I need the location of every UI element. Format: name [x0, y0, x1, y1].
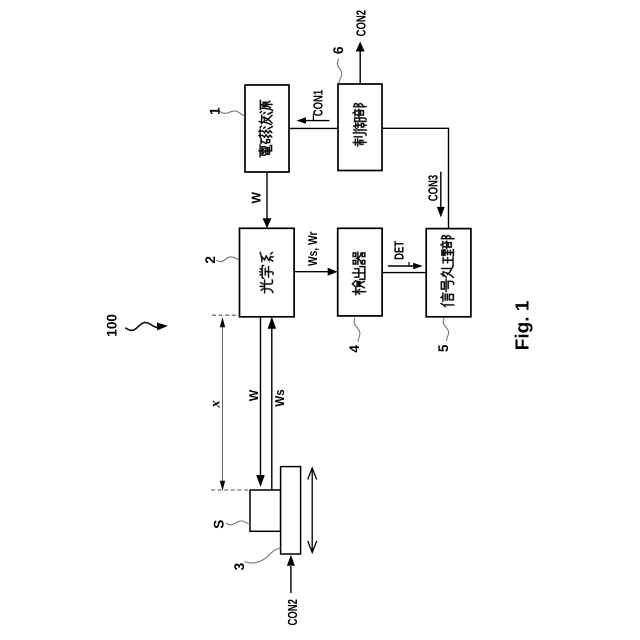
svg-text:Ws: Ws: [272, 389, 287, 406]
svg-text:x: x: [207, 400, 223, 408]
svg-text:CON2: CON2: [354, 10, 369, 36]
svg-text:1: 1: [206, 107, 222, 115]
svg-text:3: 3: [231, 563, 247, 571]
svg-text:S: S: [211, 520, 227, 529]
svg-text:CON1: CON1: [310, 90, 325, 116]
svg-text:Ws, Wr: Ws, Wr: [305, 232, 320, 267]
svg-text:6: 6: [330, 46, 346, 54]
svg-text:W: W: [249, 191, 264, 203]
svg-text:2: 2: [202, 256, 218, 264]
svg-text:5: 5: [435, 344, 451, 352]
svg-text:Fig. 1: Fig. 1: [512, 300, 533, 350]
svg-text:CON3: CON3: [426, 175, 441, 201]
svg-text:W: W: [246, 389, 261, 401]
svg-text:DET: DET: [391, 241, 406, 260]
svg-text:4: 4: [346, 345, 362, 353]
svg-text:100: 100: [104, 314, 120, 337]
svg-text:CON2: CON2: [285, 599, 300, 625]
